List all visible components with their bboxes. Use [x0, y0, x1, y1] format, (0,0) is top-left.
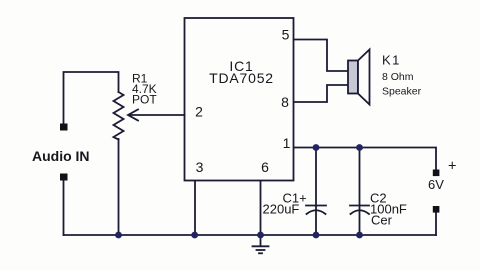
wire audio-in bottom lead — [63, 180, 65, 235]
wire bottom ground rail — [64, 234, 437, 236]
svg-text:6V: 6V — [428, 177, 444, 192]
wire pin5 to speaker top — [294, 40, 348, 72]
terminal square audio-in lower — [60, 174, 68, 181]
junction dot pot bottom — [115, 232, 122, 239]
svg-text:2: 2 — [195, 104, 203, 120]
wire pot bottom lead — [118, 139, 120, 235]
wire 6V minus leg — [435, 213, 437, 236]
junction dot ground node — [257, 232, 264, 239]
junction dot C1 top — [313, 144, 320, 151]
wire pin1 Vcc rail to +6V terminal — [294, 148, 436, 170]
wire C1 branch — [315, 148, 317, 236]
terminal square audio-in upper — [60, 124, 68, 131]
svg-text:TDA7052: TDA7052 — [209, 70, 274, 86]
junction dot pin3 bottom — [191, 232, 198, 239]
svg-text:Cer: Cer — [371, 213, 393, 228]
svg-text:+: + — [448, 159, 456, 175]
terminal square 6V plus — [433, 170, 440, 177]
svg-text:Speaker: Speaker — [382, 86, 422, 98]
svg-text:6: 6 — [261, 159, 269, 175]
speaker K1 driver — [348, 61, 358, 94]
ground symbol bar3 — [259, 252, 262, 254]
svg-text:1: 1 — [283, 135, 291, 151]
ground symbol stem — [260, 235, 262, 246]
wire pin6 to ground rail — [260, 181, 262, 235]
svg-text:K1: K1 — [382, 53, 401, 68]
capacitor C1 curved plate — [307, 210, 326, 214]
ground symbol bar1 — [253, 245, 269, 247]
wire pin8 to speaker bottom — [294, 85, 348, 102]
junction dot C1 bottom — [313, 232, 320, 239]
junction dot C2 top — [356, 144, 363, 151]
potentiometer wiper arrow — [128, 110, 138, 121]
capacitor C1 top plate — [306, 205, 326, 207]
wire pin2 to pot wiper — [129, 114, 185, 116]
svg-text:220uF: 220uF — [263, 202, 300, 217]
junction dot C2 bottom — [356, 232, 363, 239]
svg-text:POT: POT — [132, 92, 157, 106]
capacitor C2 top plate — [350, 205, 369, 207]
wire pin3 to ground rail — [194, 181, 196, 235]
svg-text:5: 5 — [282, 27, 290, 43]
ground symbol bar2 — [257, 249, 265, 251]
speaker K1 cone — [358, 50, 370, 105]
terminal square 6V minus — [433, 206, 440, 213]
op-amp IC U1 body (TDA7052) — [185, 18, 294, 181]
svg-text:8: 8 — [281, 94, 289, 110]
svg-text:Audio IN: Audio IN — [32, 148, 90, 164]
capacitor C2 curved plate — [351, 210, 370, 214]
resistor R1 potentiometer zigzag — [114, 92, 124, 140]
svg-text:8 Ohm: 8 Ohm — [382, 71, 414, 83]
wire audio-in top lead to pot top — [64, 72, 119, 124]
svg-text:3: 3 — [196, 159, 204, 175]
wire C2 branch — [359, 148, 361, 236]
